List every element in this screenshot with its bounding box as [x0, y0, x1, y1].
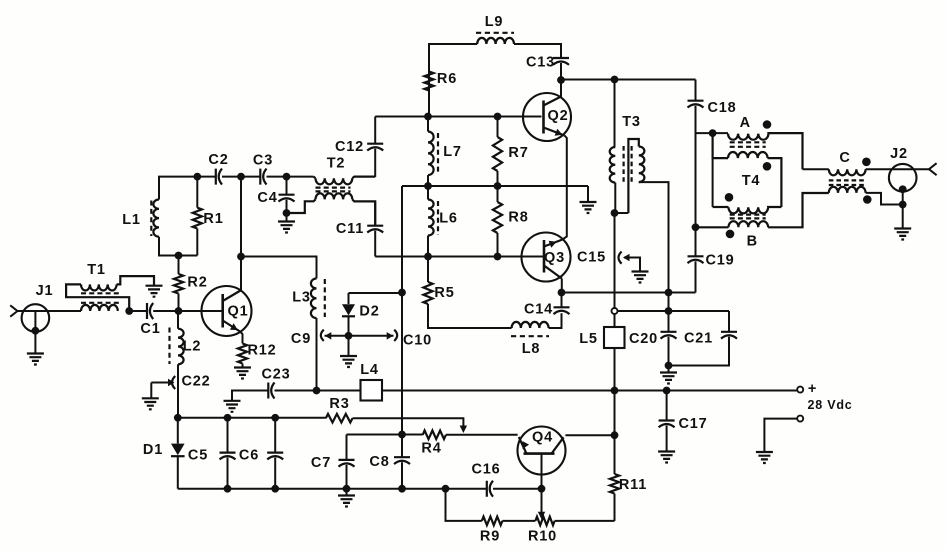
- ground: C23 left: [224, 401, 241, 412]
- svg-text:C22: C22: [182, 374, 211, 390]
- node: C7 bottom: [343, 485, 351, 493]
- transformer T1 core: [81, 292, 121, 294]
- resistor R12: [238, 344, 247, 364]
- transformer C core: [829, 179, 867, 181]
- svg-text:C1: C1: [140, 321, 160, 337]
- svg-text:C4: C4: [257, 190, 277, 206]
- capacitor C4: [286, 177, 288, 195]
- phase dot A: [763, 120, 772, 129]
- inductor L8: [512, 322, 549, 328]
- node: R4 left node: [398, 431, 406, 439]
- svg-text:L6: L6: [439, 211, 458, 227]
- svg-text:J1: J1: [36, 283, 54, 299]
- inductor L3: [311, 279, 317, 319]
- capacitor C17: [666, 391, 668, 421]
- inductor L2: [177, 311, 179, 329]
- ground: J2: [894, 229, 911, 240]
- wire: +28V rail: [275, 390, 798, 392]
- capacitor C12: [374, 117, 376, 144]
- node: J1 shield: [34, 311, 36, 331]
- wire: collector node to T3/C18 rail y=79.5: [561, 79, 696, 81]
- svg-text:L3: L3: [292, 290, 311, 306]
- svg-text:C12: C12: [335, 139, 364, 155]
- node: T3 bottom junction: [611, 209, 619, 217]
- svg-text:R5: R5: [434, 285, 454, 301]
- ground: bottom line: [346, 489, 348, 496]
- node: R7 top: [494, 113, 502, 121]
- node: C22/D1 junction: [174, 414, 182, 422]
- wire: collector node to L3: [241, 257, 317, 279]
- transformer T2 core: [316, 187, 351, 189]
- svg-text:T4: T4: [742, 173, 761, 189]
- node: C6 top: [271, 414, 279, 422]
- svg-text:Q4: Q4: [532, 430, 553, 446]
- svg-text:R7: R7: [508, 145, 528, 161]
- transformer T4 winding A primary: [696, 132, 729, 134]
- svg-text:R9: R9: [480, 529, 500, 545]
- node: T1 output junction: [125, 307, 133, 315]
- node: D2 junction: [398, 289, 406, 297]
- svg-text:J2: J2: [890, 146, 908, 162]
- node: R8 bottom: [494, 253, 502, 261]
- svg-text:L5: L5: [579, 331, 598, 347]
- node: C20 column top: [665, 289, 673, 297]
- svg-text:C8: C8: [369, 454, 389, 470]
- wire: R10 wiper: [541, 489, 543, 515]
- capacitor C5: [227, 418, 229, 453]
- transformer C top winding: [829, 169, 866, 175]
- capacitor C3: [260, 169, 266, 185]
- node: L3 bottom on rail: [313, 387, 321, 395]
- transformer T4 box left edge: [712, 158, 714, 207]
- phase dot C bottom: [863, 195, 872, 204]
- node: R7-R8 junction: [494, 182, 502, 190]
- resistor R3: [326, 414, 353, 423]
- transformer T2 secondary: [287, 199, 316, 213]
- wire: x=402 column: [401, 186, 403, 435]
- resistor R10 (pot): [535, 517, 554, 526]
- capacitor C14: [554, 307, 570, 314]
- svg-text:R6: R6: [437, 71, 457, 87]
- ground: C4: [286, 213, 288, 222]
- capacitor C18: [695, 80, 697, 101]
- svg-text:Q3: Q3: [544, 250, 565, 266]
- transformer T4 winding B secondary: [696, 226, 729, 228]
- ground: J1: [27, 354, 44, 365]
- resistor R2: [178, 256, 180, 275]
- ground: C9/C10: [348, 336, 350, 356]
- wire: Q3 emitter return y=292.5: [562, 292, 696, 294]
- svg-text:A: A: [740, 115, 751, 131]
- inductor L4 (choke block): [361, 380, 383, 401]
- node: T4 A left: [709, 129, 717, 137]
- diode D2: [348, 293, 350, 304]
- svg-text:C7: C7: [311, 455, 331, 471]
- svg-text:R11: R11: [619, 477, 647, 493]
- inductor L5 (choke block): [614, 314, 616, 327]
- node: C5 bottom: [224, 485, 232, 493]
- node: C4 bottom: [283, 209, 291, 217]
- transformer T2 primary: [314, 177, 316, 179]
- node: C6 bottom: [271, 485, 279, 493]
- phase dot B secondary: [726, 230, 735, 239]
- svg-text:R2: R2: [187, 275, 207, 291]
- wire: bottom line y=488.7: [178, 488, 487, 490]
- capacitor C22 (feedthrough): [172, 376, 175, 389]
- svg-text:C2: C2: [208, 152, 228, 168]
- capacitor C23: [268, 383, 274, 399]
- svg-text:C19: C19: [706, 253, 735, 269]
- inductor L1: [153, 200, 159, 237]
- transistor Q2: [523, 93, 571, 141]
- svg-text:C21: C21: [684, 331, 713, 347]
- wire: C bottom to J2 shield: [866, 193, 903, 205]
- connector J1 input arrow: [10, 305, 17, 316]
- capacitor C11: [374, 201, 376, 225]
- transformer T3 core: [622, 146, 624, 182]
- inductor L6: [427, 186, 429, 200]
- transformer T4 core B: [730, 214, 766, 216]
- node: R9 tap: [442, 485, 450, 493]
- transformer T1 primary bottom: [81, 305, 118, 311]
- wire: R3 line y=417.8: [178, 417, 326, 419]
- connector J1: [22, 304, 50, 332]
- wire: emitter junction line y=186: [402, 185, 588, 187]
- ground: C17: [658, 452, 675, 463]
- svg-text:Q2: Q2: [548, 108, 569, 124]
- resistor R9: [482, 517, 503, 526]
- resistor R5: [427, 257, 429, 283]
- svg-text:C17: C17: [679, 416, 708, 432]
- diode D1: [177, 418, 179, 444]
- capacitor C19: [688, 256, 704, 263]
- svg-text:C15: C15: [577, 250, 606, 266]
- svg-text:C5: C5: [188, 448, 208, 464]
- ground: C15: [632, 272, 649, 283]
- node: C19-B junction: [692, 223, 700, 231]
- svg-text:R1: R1: [203, 211, 223, 227]
- svg-text:L9: L9: [485, 14, 504, 30]
- svg-text:C20: C20: [629, 331, 658, 347]
- node: Q3 collector node: [558, 289, 566, 297]
- wire: T4 to winding C top: [803, 168, 829, 170]
- transistor Q1: [202, 286, 252, 336]
- node: L6 bottom: [424, 253, 432, 261]
- capacitor C15 (feedthrough): [614, 213, 616, 311]
- svg-text:C10: C10: [403, 333, 432, 349]
- node: C2-C3 / Q1 collector column: [237, 173, 245, 181]
- svg-text:C11: C11: [336, 221, 364, 237]
- node: T3 top junction: [611, 76, 619, 84]
- capacitor C13: [553, 58, 569, 65]
- capacitor C9 (trimmer): [321, 330, 324, 341]
- wire: bottom loop R9/R10: [446, 489, 482, 521]
- wire: T1 to C1: [129, 310, 147, 312]
- node: L7 top: [424, 113, 432, 121]
- capacitor C8: [401, 435, 403, 458]
- transformer T4 winding B primary: [713, 206, 729, 208]
- svg-text:R8: R8: [508, 210, 528, 226]
- wire: C2/C3 line y=176.6: [159, 177, 216, 200]
- ground: T1: [146, 286, 163, 297]
- phase dot C top: [862, 158, 871, 167]
- resistor R6: [424, 72, 433, 91]
- ground: Q2/Q3 emitter line: [587, 186, 589, 202]
- wire: Q4 collector right: [565, 434, 614, 436]
- transformer T4 core A: [730, 141, 766, 143]
- capacitor C1: [147, 303, 153, 319]
- capacitor C2: [216, 169, 222, 185]
- wire: C7-C8 spur y=434.5: [347, 434, 403, 436]
- node: C8 bottom: [398, 485, 406, 493]
- svg-text:R12: R12: [248, 343, 277, 359]
- wire: L9-R6 loop top-left: [429, 44, 477, 117]
- transistor Q3: [522, 233, 571, 282]
- capacitor C21: [728, 311, 730, 332]
- ground: C20/C21: [668, 366, 670, 373]
- node: feedthrough terminal: [612, 308, 618, 314]
- svg-text:C16: C16: [472, 462, 501, 478]
- svg-text:B: B: [747, 234, 758, 250]
- svg-text:C: C: [839, 150, 850, 166]
- phase dot B primary: [725, 193, 734, 202]
- resistor R1: [196, 177, 198, 208]
- capacitor C16: [487, 481, 493, 497]
- node: R2 top: [175, 252, 183, 260]
- node: R11 top: [611, 431, 619, 439]
- svg-text:Q1: Q1: [228, 304, 249, 320]
- svg-text:T1: T1: [87, 262, 106, 278]
- svg-text:C3: C3: [253, 153, 273, 169]
- svg-text:C9: C9: [291, 331, 311, 347]
- svg-text:D2: D2: [359, 304, 379, 320]
- terminal: +28 Vdc: [797, 387, 803, 393]
- wire: J1 input line: [18, 310, 82, 312]
- node: L7-L6 junction: [424, 182, 432, 190]
- inductor L7: [427, 117, 429, 132]
- svg-text:C14: C14: [524, 302, 553, 318]
- connector J2: [889, 164, 917, 192]
- wire: y=311 line: [617, 310, 729, 312]
- wire: L9 right to C13: [514, 44, 561, 58]
- node: J2 shield: [899, 185, 907, 193]
- capacitor C20: [668, 311, 670, 332]
- transformer C bottom winding: [829, 187, 866, 193]
- node: C9-C10 ground tap: [345, 332, 353, 340]
- node: C17 on rail: [663, 387, 671, 395]
- node: Q1 base node: [175, 307, 183, 315]
- svg-text:C18: C18: [708, 100, 737, 116]
- node: R1 top: [193, 173, 201, 181]
- node: C13-Q2 collector junction: [557, 76, 565, 84]
- terminal: supply ground: [797, 416, 803, 422]
- capacitor C7: [346, 435, 348, 460]
- transformer T3 secondary: [628, 139, 638, 213]
- resistor R4: [402, 434, 423, 436]
- phase dot A secondary: [763, 162, 772, 171]
- svg-text:28 Vdc: 28 Vdc: [807, 398, 852, 412]
- capacitor C6: [274, 418, 276, 453]
- svg-text:D1: D1: [143, 442, 163, 458]
- svg-text:L2: L2: [183, 339, 202, 355]
- svg-text:R3: R3: [329, 396, 349, 412]
- wire: collector node up to C2/C3: [240, 177, 242, 257]
- transformer T3 primary: [614, 80, 616, 148]
- wire: C top to J2: [866, 168, 929, 170]
- transistor Q4: [518, 427, 566, 475]
- resistor R11: [614, 391, 616, 475]
- ground: supply return: [756, 452, 773, 463]
- resistor R8: [497, 186, 499, 202]
- svg-text:R10: R10: [528, 529, 557, 545]
- wire: Q3 base line y=256.5: [375, 256, 544, 258]
- ground: R12: [234, 368, 251, 379]
- wire: R3 to R4 wiper arm: [353, 418, 464, 427]
- svg-text:L8: L8: [522, 341, 541, 357]
- node: J2 ground junction: [899, 201, 907, 209]
- svg-text:C13: C13: [526, 55, 555, 71]
- node: Q4 base bottom: [538, 485, 546, 493]
- svg-text:L1: L1: [122, 212, 141, 228]
- transformer T4 winding A secondary: [713, 133, 728, 158]
- svg-text:R4: R4: [421, 441, 441, 457]
- svg-text:T3: T3: [622, 114, 641, 130]
- svg-text:T2: T2: [327, 156, 346, 172]
- svg-text:L4: L4: [360, 362, 379, 378]
- node: C5 top: [224, 414, 232, 422]
- node: C3-C4-T2: [283, 173, 291, 181]
- inductor L9: [477, 38, 514, 44]
- node: L5 on rail: [611, 387, 619, 395]
- wire: Q2 base rail: [375, 116, 541, 118]
- svg-text:L7: L7: [443, 144, 462, 160]
- resistor R7: [497, 117, 499, 138]
- svg-text:+: +: [808, 381, 817, 397]
- node: C20 top: [665, 307, 673, 315]
- ground: C22: [142, 398, 159, 409]
- wire: D2 top to x=402 column: [349, 292, 403, 294]
- svg-text:C6: C6: [239, 448, 259, 464]
- capacitor C10 (trimmer): [394, 330, 397, 341]
- node: Q1 collector node: [237, 253, 245, 261]
- svg-text:C23: C23: [262, 367, 291, 383]
- wire: C1 to Q1 base: [153, 310, 223, 312]
- transformer T1 secondary top: [66, 284, 129, 311]
- node: C20-C21 bottom: [665, 362, 673, 370]
